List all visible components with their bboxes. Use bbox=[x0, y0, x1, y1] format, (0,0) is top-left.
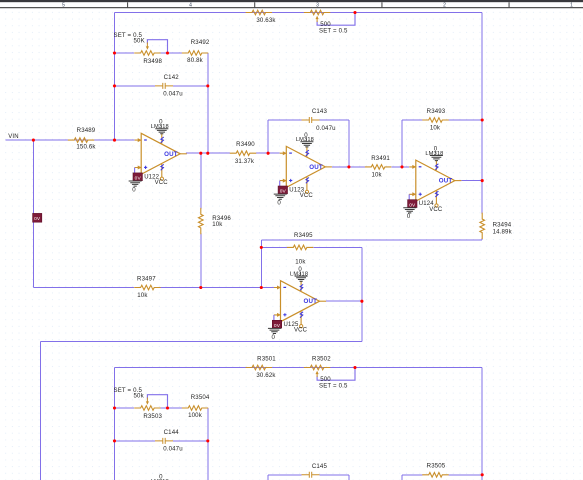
svg-text:SET = 0.5: SET = 0.5 bbox=[319, 383, 348, 390]
svg-text:10k: 10k bbox=[137, 292, 148, 299]
svg-text:R3492: R3492 bbox=[191, 39, 210, 46]
junction U122 out / R3496 bbox=[199, 152, 202, 155]
svg-text:C145: C145 bbox=[312, 463, 328, 470]
wire U122 out to R3490 bbox=[186, 152, 230, 154]
svg-text:0.047u: 0.047u bbox=[163, 446, 183, 453]
potentiometer R3488b 500 bbox=[304, 10, 330, 15]
junction U123 out / C143 bbox=[347, 165, 350, 168]
wire block2 right outer vertical bbox=[481, 368, 483, 480]
wire R3494 bottom lead bbox=[481, 238, 483, 240]
junction U125 out bbox=[360, 300, 363, 303]
junction R3496 bottom bbox=[199, 286, 202, 289]
wire R3497 row right bbox=[161, 287, 274, 289]
svg-text:R3501: R3501 bbox=[257, 355, 276, 362]
wire R3495 right vertical bbox=[361, 247, 363, 341]
svg-text:0.047u: 0.047u bbox=[163, 91, 183, 98]
junction pot 500 top bbox=[353, 11, 356, 14]
wire C143 row right bbox=[320, 119, 349, 121]
svg-text:10k: 10k bbox=[212, 221, 223, 228]
wire R3491 to U124 in bbox=[391, 166, 409, 168]
wire C143 left vertical bbox=[267, 120, 269, 153]
capacitor C144 bbox=[155, 438, 173, 444]
svg-text:10k: 10k bbox=[371, 172, 382, 179]
op-amp U123 LM318 bbox=[274, 132, 332, 207]
wire R3505 row left bbox=[402, 474, 422, 476]
junction U122 out / feedback bbox=[206, 152, 209, 155]
svg-text:R3490: R3490 bbox=[236, 141, 255, 148]
resistor R3493 10k bbox=[422, 118, 448, 123]
wire R3493 row right bbox=[449, 119, 483, 121]
wire R3498-R3492 link bbox=[161, 52, 182, 54]
svg-text:R3493: R3493 bbox=[427, 108, 446, 115]
potentiometer R3502 500 bbox=[304, 365, 330, 370]
svg-text:30.63k: 30.63k bbox=[256, 17, 276, 24]
wire R3505 row right bbox=[449, 474, 483, 476]
junction R3498 wiper bbox=[166, 51, 169, 54]
junction R3495 left bbox=[260, 246, 263, 249]
junction C144 left bbox=[113, 439, 116, 442]
junction U124 out bbox=[481, 179, 484, 182]
resistor R3488 30.63k bbox=[246, 10, 272, 15]
svg-text:R3498: R3498 bbox=[143, 58, 162, 65]
wire R3496 bottom lead bbox=[200, 233, 202, 287]
resistor R3491 10k bbox=[365, 165, 391, 170]
resistor R3503 pot 50k bbox=[134, 406, 160, 411]
wire C145 right vertical bbox=[348, 475, 350, 480]
junction C142 left bbox=[113, 84, 116, 87]
potentiometer wiper R3488b bbox=[317, 13, 355, 26]
wire U124 out bbox=[461, 180, 482, 182]
svg-text:VIN: VIN bbox=[8, 134, 18, 140]
resistor R3494 14.89k bbox=[480, 213, 485, 239]
bias label 0V on VIN branch bbox=[33, 213, 42, 222]
junction R3493 right bbox=[481, 118, 484, 121]
wire VIN branch vertical bbox=[32, 140, 34, 287]
svg-text:50K: 50K bbox=[134, 38, 145, 45]
svg-text:U122: U122 bbox=[144, 174, 159, 180]
wire top feedback row bbox=[115, 12, 483, 14]
wire R3490 to U123 in bbox=[256, 152, 280, 154]
svg-text:R3504: R3504 bbox=[191, 394, 210, 401]
wire C144 row right bbox=[173, 440, 208, 442]
wire U125 out bbox=[326, 300, 362, 302]
junction R3505 right bbox=[481, 473, 484, 476]
wire stage output row bbox=[41, 341, 362, 343]
svg-text:80.8k: 80.8k bbox=[187, 57, 203, 64]
svg-text:R3495: R3495 bbox=[294, 232, 313, 239]
svg-text:50k: 50k bbox=[134, 393, 145, 400]
wire R3495 row left bbox=[261, 246, 287, 248]
svg-text:150.6k: 150.6k bbox=[76, 144, 96, 151]
svg-text:14.89k: 14.89k bbox=[493, 229, 513, 236]
junction U125 in bbox=[260, 286, 263, 289]
svg-text:10k: 10k bbox=[430, 125, 441, 132]
svg-text:30.62k: 30.62k bbox=[256, 372, 276, 379]
svg-text:C143: C143 bbox=[312, 108, 328, 115]
junction block2 feedback row left bbox=[113, 406, 116, 409]
resistor R3489 150.6k bbox=[68, 138, 94, 143]
junction feedback row left bbox=[113, 51, 116, 54]
wire feedback right vertical bbox=[207, 53, 209, 153]
wire C142 row right bbox=[173, 85, 208, 87]
potentiometer wiper R3502 bbox=[317, 368, 355, 381]
junction U123 in / C143 bbox=[267, 152, 270, 155]
capacitor C142 bbox=[155, 83, 173, 89]
svg-text:2: 2 bbox=[443, 3, 446, 9]
svg-text:31.37k: 31.37k bbox=[235, 158, 255, 165]
svg-text:C142: C142 bbox=[164, 74, 180, 81]
op-amp U124 LM318 bbox=[403, 146, 461, 221]
svg-text:3: 3 bbox=[316, 3, 319, 9]
svg-text:R3502: R3502 bbox=[312, 355, 331, 362]
svg-text:R3489: R3489 bbox=[77, 127, 96, 134]
wire C142 row left bbox=[115, 85, 156, 87]
resistor R3505 10k bbox=[422, 473, 448, 478]
wire stage output left vertical bbox=[40, 342, 42, 480]
resistor R3498 pot 50K bbox=[134, 51, 160, 56]
wire R3495 left vertical bbox=[260, 240, 262, 288]
wire R3497 row left bbox=[33, 287, 134, 289]
resistor R3496 10k bbox=[199, 208, 204, 234]
wire block2 top feedback row bbox=[115, 367, 483, 369]
junction C142 right bbox=[206, 84, 209, 87]
svg-text:U123: U123 bbox=[289, 188, 304, 194]
wire U123 out to R3491 bbox=[332, 166, 365, 168]
potentiometer wiper R3498 bbox=[147, 40, 167, 53]
svg-text:U124: U124 bbox=[419, 201, 434, 207]
junction U124 in / R3493 bbox=[400, 165, 403, 168]
wire block2 left vertical bbox=[114, 368, 116, 480]
resistor R3492 80.8k bbox=[182, 51, 208, 56]
junction VIN branch bbox=[32, 139, 35, 142]
svg-text:0.047u: 0.047u bbox=[316, 125, 336, 132]
junction C144 right bbox=[206, 439, 209, 442]
wire R3493 left vertical bbox=[401, 120, 403, 167]
svg-text:R3505: R3505 bbox=[427, 463, 446, 470]
svg-text:R3491: R3491 bbox=[371, 155, 390, 162]
svg-text:100k: 100k bbox=[188, 412, 203, 419]
op-amp U122 LM318 bbox=[129, 119, 187, 194]
svg-text:1: 1 bbox=[570, 3, 573, 9]
wire right outer vertical bbox=[481, 13, 483, 214]
capacitor C143 bbox=[302, 117, 320, 123]
svg-text:C144: C144 bbox=[164, 429, 180, 436]
wire C143 row left bbox=[268, 119, 301, 121]
wire R3503 row left bbox=[115, 407, 135, 409]
wire R3503-R3504 link bbox=[161, 407, 182, 409]
resistor R3497 10k bbox=[134, 285, 160, 290]
svg-text:SET = 0.5: SET = 0.5 bbox=[319, 28, 348, 35]
resistor R3501 30.62k bbox=[246, 365, 272, 370]
wire C145 row right bbox=[320, 474, 349, 476]
wire R3494 return row bbox=[261, 239, 482, 241]
svg-text:0V: 0V bbox=[34, 216, 41, 222]
svg-text:R3503: R3503 bbox=[143, 413, 162, 420]
svg-text:R3497: R3497 bbox=[137, 275, 156, 282]
wire left feedback vertical bbox=[114, 13, 116, 141]
svg-text:4: 4 bbox=[189, 3, 192, 9]
svg-text:U125: U125 bbox=[284, 322, 299, 328]
resistor R3504 100k bbox=[182, 406, 208, 411]
potentiometer wiper R3503 bbox=[147, 395, 167, 408]
resistor R3490 31.37k bbox=[230, 151, 256, 156]
wire R3493 row left bbox=[402, 119, 422, 121]
wire C143 right vertical bbox=[348, 120, 350, 167]
op-amp U126 LM318 (partial) bbox=[129, 474, 187, 480]
wire VIN input row bbox=[6, 139, 135, 141]
junction R3503 wiper bbox=[166, 406, 169, 409]
junction R3502 pot bbox=[353, 366, 356, 369]
wire R3505 left vertical bbox=[401, 475, 403, 480]
wire R3496 top lead bbox=[200, 153, 202, 209]
svg-text:5: 5 bbox=[62, 3, 65, 9]
resistor R3495 10k bbox=[287, 245, 313, 250]
wire C145 row left bbox=[268, 474, 301, 476]
wire C145 left vertical bbox=[267, 475, 269, 480]
junction left vertical / input bbox=[113, 139, 116, 142]
wire block2 feedback right vertical bbox=[207, 408, 209, 480]
ruler bar bbox=[0, 0, 583, 2]
wire R3498 row left bbox=[115, 52, 135, 54]
wire C144 row left bbox=[115, 440, 156, 442]
op-amp U125 LM318 bbox=[268, 266, 326, 341]
capacitor C145 bbox=[302, 472, 320, 478]
svg-text:10k: 10k bbox=[295, 258, 306, 265]
wire R3495 row right bbox=[313, 246, 362, 248]
